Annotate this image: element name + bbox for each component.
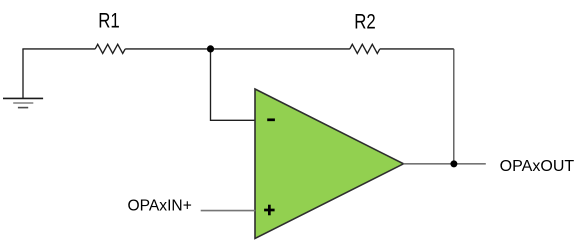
op-amp U1 minus pin marker — [267, 118, 275, 121]
op-amp U1 — [255, 89, 404, 239]
op-amp U1 plus pin marker — [264, 205, 275, 216]
svg-text:R2: R2 — [354, 10, 376, 33]
wire: node A down and right to inverting input — [211, 49, 256, 120]
wire: ground corner to R1 left lead — [22, 48, 95, 50]
svg-text:OPAxOUT: OPAxOUT — [500, 158, 575, 175]
wire: ground stem — [22, 49, 24, 98]
wire: output — [404, 163, 486, 165]
wire: R2 right lead to feedback corner — [380, 48, 454, 50]
resistor R1 — [95, 44, 125, 53]
resistor R2 — [350, 44, 380, 53]
node A (input junction dot) — [207, 45, 214, 52]
ground — [3, 98, 43, 107]
svg-text:OPAxIN+: OPAxIN+ — [128, 198, 192, 215]
wire: feedback vertical drop to output node — [453, 49, 455, 164]
wire: OPAxIN+ to non-inverting input — [201, 210, 256, 212]
wire: R1 to node A — [125, 48, 210, 50]
svg-text:R1: R1 — [98, 10, 120, 33]
node B (output junction dot) — [450, 160, 457, 167]
wire: node A to R2 left lead — [211, 48, 350, 50]
